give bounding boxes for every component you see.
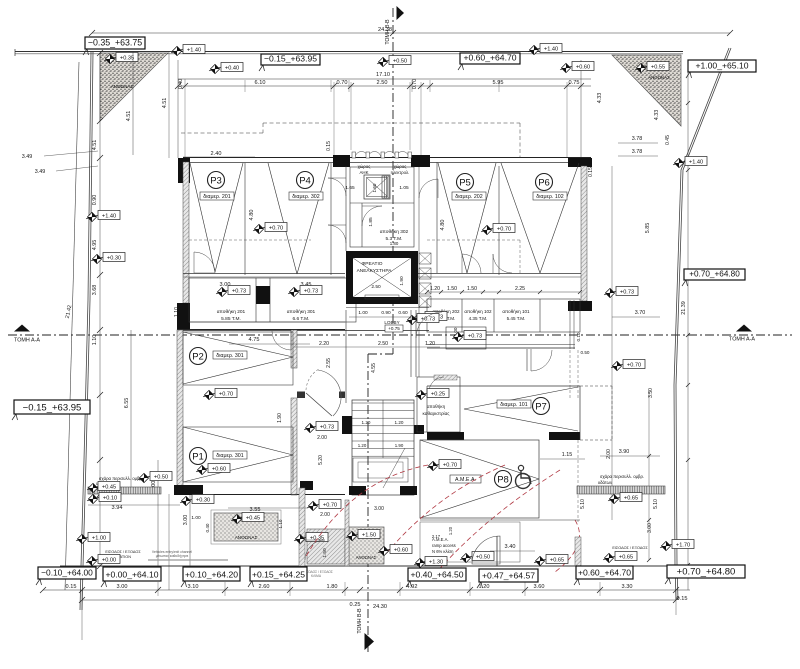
svg-text:ΕΙΣΟΔΟΣ / ΕΞΟΔΟΣ: ΕΙΣΟΔΟΣ / ΕΞΟΔΟΣ <box>105 550 141 554</box>
svg-text:2.00: 2.00 <box>320 512 330 518</box>
stair enclosure <box>352 400 414 495</box>
elevation box +0.10 +64.20 <box>181 567 240 587</box>
svg-text:0.45: 0.45 <box>665 135 671 145</box>
level marker +0.70 P5-P6 <box>481 224 515 235</box>
svg-text:P2: P2 <box>192 351 204 362</box>
svg-text:3.00: 3.00 <box>117 584 128 590</box>
elevation box -0.10 +64.00 <box>36 567 96 585</box>
svg-text:+0.70: +0.70 <box>497 226 511 232</box>
svg-text:3.50: 3.50 <box>648 388 654 398</box>
stall dividing wall P4/core <box>330 163 332 275</box>
svg-text:P7: P7 <box>535 401 547 412</box>
level marker +0.35 top-left <box>104 53 138 64</box>
door arc core west lower <box>328 225 346 243</box>
svg-text:0.60: 0.60 <box>398 310 408 316</box>
entry texts left <box>105 550 228 560</box>
planter triangle top-left (ΑΝΟΙΓΟΝΑΣ) <box>100 53 168 121</box>
level marker +0.30 left boundary <box>91 253 125 264</box>
svg-text:+0.73: +0.73 <box>421 316 435 322</box>
level marker +0.73 storage 201 <box>216 286 250 297</box>
entrance door arcs top <box>352 152 412 159</box>
svg-text:+1.40: +1.40 <box>689 159 703 165</box>
svg-text:1.20: 1.20 <box>430 286 440 292</box>
elevation box -0.15 +63.95 <box>259 54 320 72</box>
P5 stall west edge <box>436 162 438 273</box>
parking stall P3 V-mark <box>190 163 243 272</box>
svg-text:0.25: 0.25 <box>350 602 361 608</box>
svg-text:+0.60: +0.60 <box>394 547 408 553</box>
svg-text:+0.55: +0.55 <box>651 64 665 70</box>
svg-text:1.00: 1.00 <box>358 310 368 316</box>
apartment box 301 P2 <box>213 351 247 359</box>
black bar left of P1 entrance <box>174 485 203 495</box>
svg-text:2.00: 2.00 <box>606 449 612 459</box>
svg-text:2.50: 2.50 <box>378 341 388 347</box>
svg-text:+0.70_+64.80: +0.70_+64.80 <box>677 567 736 578</box>
stall dividing wall P5/P6 <box>498 166 500 275</box>
svg-text:αποθήκη 302: αποθήκη 302 <box>380 228 409 235</box>
svg-text:3.78: 3.78 <box>632 149 643 155</box>
svg-text:4.33: 4.33 <box>597 93 603 104</box>
svg-text:χώρος: χώρος <box>358 164 371 169</box>
level marker +0.65 right entry <box>603 552 637 563</box>
top dimension line 24.38 <box>89 27 733 36</box>
svg-text:+1.70: +1.70 <box>676 542 690 548</box>
svg-text:1.20: 1.20 <box>395 420 404 425</box>
svg-text:4.51: 4.51 <box>126 111 132 122</box>
left dimension line 21.42 <box>65 62 79 590</box>
svg-text:1.85: 1.85 <box>368 217 374 227</box>
svg-text:+0.00_+64.10: +0.00_+64.10 <box>105 570 158 580</box>
svg-text:1.05: 1.05 <box>399 185 409 191</box>
door arc core east <box>419 179 438 198</box>
svg-text:+0.45: +0.45 <box>246 515 260 521</box>
level marker +0.35 entrance door <box>294 533 328 544</box>
svg-text:2.40: 2.40 <box>211 151 222 157</box>
left wall upper (hatched) <box>183 162 189 303</box>
svg-text:+0.70: +0.70 <box>627 362 641 368</box>
svg-text:+0.40: +0.40 <box>225 65 239 71</box>
svg-text:+1.00: +1.00 <box>92 535 106 541</box>
lower block top wall <box>177 330 345 332</box>
svg-text:4.55: 4.55 <box>371 363 377 373</box>
svg-text:ΚΛΙΜΑ: ΚΛΙΜΑ <box>311 574 322 578</box>
level marker +0.50 top-mid <box>377 56 411 67</box>
lobby label <box>384 320 403 332</box>
svg-text:21.39: 21.39 <box>681 301 687 315</box>
svg-text:1.20: 1.20 <box>479 584 490 590</box>
svg-text:4.35 Τ.Μ.: 4.35 Τ.Μ. <box>469 316 488 321</box>
svg-text:6.10: 6.10 <box>255 80 266 86</box>
storage rooms right outline <box>427 299 580 332</box>
svg-text:5.95: 5.95 <box>493 80 504 86</box>
level marker +0.73 stairs west <box>304 422 338 433</box>
level marker +0.70 P3-P4 <box>253 223 287 234</box>
svg-text:−0.15_+63.95: −0.15_+63.95 <box>264 54 317 64</box>
svg-text:+0.75: +0.75 <box>388 326 400 331</box>
svg-text:1.50: 1.50 <box>467 286 477 292</box>
svg-text:5.85 Τ.Μ.: 5.85 Τ.Μ. <box>221 316 241 322</box>
svg-text:+0.47_+64.57: +0.47_+64.57 <box>482 571 535 581</box>
svg-text:ramp access: ramp access <box>432 543 456 548</box>
wall bar P7 left <box>427 432 464 440</box>
elevation box +0.60 +64.70 <box>458 53 520 71</box>
svg-text:−0.35_+63.75: −0.35_+63.75 <box>88 38 142 48</box>
column top-right <box>568 158 592 167</box>
svg-text:4.80: 4.80 <box>249 210 255 221</box>
svg-text:P4: P4 <box>299 175 311 186</box>
level marker +0.60 top-right <box>560 62 594 73</box>
level marker +0.45 planter left <box>231 513 264 524</box>
lobby west wall (hatched) <box>291 330 297 495</box>
parking label P6 <box>536 174 553 191</box>
red manoeuvre arcs <box>305 465 580 580</box>
entrance west wall <box>203 481 313 566</box>
svg-text:6.6 Τ.Μ.: 6.6 Τ.Μ. <box>293 316 310 322</box>
dashed projection right of P7 <box>580 386 612 440</box>
door arc corridor east <box>416 312 442 338</box>
elevator door strip <box>382 176 389 198</box>
plot boundary top line <box>15 51 683 53</box>
svg-text:ΑΝΘΩΝΑΣ: ΑΝΘΩΝΑΣ <box>235 535 258 540</box>
svg-text:+0.10: +0.10 <box>103 495 117 501</box>
svg-text:P8: P8 <box>497 474 509 485</box>
svg-text:+0.10_+64.20: +0.10_+64.20 <box>185 570 238 580</box>
svg-text:5.10: 5.10 <box>653 499 659 509</box>
svg-text:1.90: 1.90 <box>277 413 283 423</box>
plot boundary bottom <box>60 565 676 567</box>
svg-text:24.38: 24.38 <box>378 27 392 33</box>
svg-text:+0.35: +0.35 <box>120 55 134 61</box>
cleaner storage room <box>417 375 460 432</box>
svg-text:+0.70: +0.70 <box>269 225 283 231</box>
level marker +0.65 grate right <box>608 493 642 504</box>
right inner dimensions <box>540 110 671 562</box>
planter side wall hatch <box>345 500 349 566</box>
parking stall P4 V-mark <box>268 163 329 274</box>
svg-text:3.49: 3.49 <box>35 169 46 175</box>
elevation box +0.40 +64.50 <box>406 568 466 587</box>
svg-text:1.90: 1.90 <box>399 276 405 286</box>
svg-text:2.17: 2.17 <box>432 534 441 539</box>
door arc P2 corridor <box>272 331 291 350</box>
level marker +0.55 top-right <box>635 62 669 73</box>
svg-text:ΤΟΜΗ Β-Β: ΤΟΜΗ Β-Β <box>357 608 363 634</box>
svg-text:μέτωπας καθοδήγησε: μέτωπας καθοδήγησε <box>156 554 189 558</box>
svg-text:0.10: 0.10 <box>576 332 581 341</box>
svg-text:0.40: 0.40 <box>205 523 210 532</box>
level marker +1.40 right boundary <box>673 157 707 168</box>
elevation box +0.70 +64.80 bottom <box>665 565 745 584</box>
apartment box 102 <box>533 192 567 200</box>
wheelchair icon <box>516 465 532 488</box>
svg-text:1.15: 1.15 <box>562 452 573 458</box>
svg-text:+0.73: +0.73 <box>320 424 334 430</box>
column top-left <box>178 158 190 183</box>
svg-text:+1.40: +1.40 <box>544 46 558 52</box>
svg-text:3.30: 3.30 <box>622 584 633 590</box>
level marker +1.40 top-right <box>528 44 562 55</box>
AHK closet (X box) <box>364 175 390 199</box>
svg-text:ΤΟΜΗ Α-Α: ΤΟΜΗ Α-Α <box>14 338 40 344</box>
level marker +0.25 cleaner room <box>415 389 449 400</box>
svg-text:υδάτων: υδάτων <box>598 480 612 485</box>
lobby side walls <box>346 310 416 403</box>
svg-text:+0.70_+64.80: +0.70_+64.80 <box>689 270 740 279</box>
svg-text:3.70: 3.70 <box>635 310 646 316</box>
svg-text:+0.50: +0.50 <box>154 474 168 480</box>
svg-text:−0.10_+64.00: −0.10_+64.00 <box>41 568 93 578</box>
svg-text:P5: P5 <box>459 177 471 188</box>
svg-text:+1.30: +1.30 <box>429 559 443 565</box>
svg-text:2.20: 2.20 <box>319 341 329 347</box>
door arc P5 storage <box>462 254 481 273</box>
svg-text:+0.73: +0.73 <box>620 289 634 295</box>
svg-text:3.78: 3.78 <box>632 136 643 142</box>
dashed interior guides <box>189 240 520 273</box>
svg-text:+0.70: +0.70 <box>323 502 337 508</box>
svg-text:4.75: 4.75 <box>249 337 260 343</box>
svg-text:Ν 6% κλίση: Ν 6% κλίση <box>432 549 454 554</box>
svg-text:3.49: 3.49 <box>22 154 33 160</box>
column core top-left <box>333 155 350 167</box>
svg-text:2.55: 2.55 <box>326 358 332 368</box>
level marker +0.73 storage 301 <box>288 286 322 297</box>
svg-text:LOBBY: LOBBY <box>384 320 399 325</box>
level marker +0.70 P2 <box>203 389 237 400</box>
svg-text:0.90: 0.90 <box>381 310 391 316</box>
stall dividing wall P3/P4 <box>244 163 246 275</box>
level marker +0.65 entrance right <box>534 555 568 566</box>
svg-text:0.40: 0.40 <box>178 79 184 89</box>
door arc core west upper <box>328 178 346 196</box>
storage rooms left outline <box>189 278 356 322</box>
level marker +0.00 entry <box>86 555 120 566</box>
building top wall <box>183 158 591 163</box>
svg-text:4.51: 4.51 <box>162 98 168 109</box>
svg-text:+0.50: +0.50 <box>393 58 407 64</box>
svg-text:+0.73: +0.73 <box>232 288 246 294</box>
svg-text:αποθήκη 301: αποθήκη 301 <box>287 308 316 315</box>
section line B-B <box>357 6 404 652</box>
apartment box 201 <box>200 192 234 200</box>
svg-text:διαμερ. 101: διαμερ. 101 <box>500 402 527 408</box>
level marker +0.70 P8 <box>427 460 461 471</box>
svg-text:0.15: 0.15 <box>677 596 688 602</box>
top dimension band <box>126 52 603 166</box>
core outline <box>345 166 429 377</box>
svg-text:+0.25: +0.25 <box>431 391 445 397</box>
lower block left wall <box>177 330 183 494</box>
svg-text:+1.00_+65.10: +1.00_+65.10 <box>695 61 748 71</box>
svg-text:2.00: 2.00 <box>317 435 327 441</box>
dims below shaft <box>349 310 418 317</box>
svg-text:+0.40_+64.50: +0.40_+64.50 <box>410 570 463 580</box>
svg-text:P1: P1 <box>192 451 204 462</box>
svg-text:4.80: 4.80 <box>440 220 446 231</box>
svg-text:3.40: 3.40 <box>505 544 516 550</box>
right wall upper (hatched) <box>581 166 587 301</box>
svg-text:6.55: 6.55 <box>124 398 130 409</box>
svg-text:24.30: 24.30 <box>373 604 387 610</box>
amea box <box>450 475 481 483</box>
svg-text:2.50: 2.50 <box>377 80 388 86</box>
level marker +1.00 entry <box>76 533 110 544</box>
svg-text:αποθήκη 102: αποθήκη 102 <box>464 308 492 314</box>
level marker +1.50 planter mid <box>346 530 380 541</box>
level marker +1.40 top-left <box>171 45 205 56</box>
parking label P8 <box>495 471 512 488</box>
column storage divider <box>256 286 270 304</box>
svg-text:+0.65: +0.65 <box>619 554 633 560</box>
svg-text:ΑΗΚ: ΑΗΚ <box>359 170 368 175</box>
svg-text:+0.60: +0.60 <box>212 466 226 472</box>
ramp hatched <box>307 529 345 564</box>
svg-text:1.80: 1.80 <box>327 584 338 590</box>
stair columns <box>342 416 352 434</box>
svg-text:διαμερ. 301: διαμερ. 301 <box>216 453 243 459</box>
svg-text:5.10: 5.10 <box>580 499 586 509</box>
grate right <box>577 474 665 494</box>
level marker +0.45 grate <box>87 482 120 493</box>
svg-text:+0.70: +0.70 <box>443 462 457 468</box>
elevation box +0.47 +64.57 <box>477 569 538 588</box>
svg-text:4.33: 4.33 <box>654 110 660 121</box>
svg-text:ηλεκτρολ.: ηλεκτρολ. <box>391 170 410 175</box>
level marker +0.30 <box>180 495 214 506</box>
storage 302 room <box>368 217 409 246</box>
parking label P4 <box>297 172 314 189</box>
svg-text:3.68: 3.68 <box>92 285 98 296</box>
dimension line storage right <box>425 286 582 294</box>
parking label P2 <box>190 348 207 365</box>
right block lower band <box>427 300 590 400</box>
parking label P3 <box>208 172 225 189</box>
level marker +0.73 storage right <box>413 312 447 323</box>
planter left (ΑΝΘΩΝΑΣ) <box>211 510 281 544</box>
elevation box +0.60 +64.70 bottom <box>574 566 633 585</box>
svg-text:0.15: 0.15 <box>326 141 332 151</box>
svg-text:+1.40: +1.40 <box>102 213 116 219</box>
parking stall P2 <box>183 332 293 385</box>
svg-text:1.50: 1.50 <box>447 286 457 292</box>
stair treads <box>352 400 414 488</box>
plot boundary left <box>80 52 93 610</box>
svg-text:5.85: 5.85 <box>645 223 651 234</box>
lower block bottom wall <box>177 494 345 496</box>
P7/P8 right wall <box>579 386 581 440</box>
svg-text:αποθήκη 201: αποθήκη 201 <box>217 308 246 315</box>
svg-text:1.20: 1.20 <box>358 443 367 448</box>
corridor dims above stairs <box>277 341 440 423</box>
apartment box 101 P7 <box>497 400 531 408</box>
svg-text:P3: P3 <box>210 175 222 186</box>
svg-text:ΑΝΘΩΝΑΣ: ΑΝΘΩΝΑΣ <box>648 75 670 80</box>
elevation box left -0.15 +63.95 <box>12 400 90 420</box>
svg-text:ΑΝΘΩΝΑΣ: ΑΝΘΩΝΑΣ <box>111 84 134 89</box>
door arc P3 storage <box>194 252 215 273</box>
bottom dimension line <box>40 582 690 608</box>
svg-text:2.50: 2.50 <box>371 284 381 290</box>
svg-text:διαμερ. 301: διαμερ. 301 <box>216 353 243 359</box>
svg-text:0.90: 0.90 <box>92 195 98 206</box>
door arc storage 302 <box>362 206 382 226</box>
svg-text:0.75: 0.75 <box>569 80 580 86</box>
svg-text:3.94: 3.94 <box>112 505 123 511</box>
elevation box -0.35 +63.75 <box>83 37 145 55</box>
svg-text:+1.40: +1.40 <box>187 47 201 53</box>
svg-text:3.60: 3.60 <box>534 584 545 590</box>
svg-text:διαμερ. 102: διαμερ. 102 <box>536 194 563 200</box>
svg-text:ΕΙΣΟΔΟΣ / ΕΞΟΔΟΣ: ΕΙΣΟΔΟΣ / ΕΞΟΔΟΣ <box>612 546 648 550</box>
door leaf vestibule <box>306 393 332 416</box>
level marker +0.73 lobby <box>406 314 439 325</box>
svg-text:1.10: 1.10 <box>278 519 283 528</box>
svg-text:+0.60: +0.60 <box>576 64 590 70</box>
bottom total dimension 24.30 <box>79 590 679 640</box>
svg-text:καθαριστρίας: καθαριστρίας <box>423 411 451 416</box>
svg-text:1.60: 1.60 <box>372 183 377 192</box>
level marker +0.70 right side <box>611 360 645 371</box>
svg-text:+0.65: +0.65 <box>550 557 564 563</box>
level marker +1.70 boundary <box>660 540 694 551</box>
grate left <box>88 476 161 494</box>
svg-text:ΤΟΜΗ Α-Α: ΤΟΜΗ Α-Α <box>729 337 755 343</box>
column left mid <box>177 303 190 329</box>
svg-text:ΑΝΘΩΝΑΣ: ΑΝΘΩΝΑΣ <box>356 555 377 560</box>
level marker +0.73 mid-right room <box>452 331 486 342</box>
left inner dimension lines <box>124 330 190 590</box>
vestibule bottom wall segments <box>297 392 345 399</box>
planter triangle top-right (ΑΝΟΙΓΟΝΑΣ) <box>612 55 681 126</box>
svg-text:+0.60_+64.70: +0.60_+64.70 <box>578 568 631 578</box>
svg-text:1.65: 1.65 <box>345 185 355 191</box>
section line A-A <box>8 325 792 344</box>
P7/P8 block top wall <box>427 385 580 387</box>
column core top-right <box>411 155 430 167</box>
parking stall P8 (AMEA) <box>420 440 539 518</box>
level marker +0.70 entrance <box>307 500 341 511</box>
svg-text:+0.65: +0.65 <box>624 495 638 501</box>
storage band bottom wall left <box>177 322 345 330</box>
level marker +1.30 ramp <box>414 557 447 568</box>
svg-text:0.15: 0.15 <box>588 167 594 177</box>
apartment box 202 <box>452 192 486 200</box>
svg-text:1.20: 1.20 <box>362 420 371 425</box>
svg-text:3.00: 3.00 <box>183 515 189 526</box>
svg-text:+0.60_+64.70: +0.60_+64.70 <box>463 53 516 63</box>
door arc vestibule (solid) <box>318 370 341 416</box>
svg-text:1.50: 1.50 <box>322 548 328 558</box>
level marker +0.50 grate left <box>138 472 172 483</box>
elevation box right +0.70 +64.80 <box>682 269 745 286</box>
svg-text:0.70: 0.70 <box>412 79 418 89</box>
svg-text:+0.73: +0.73 <box>468 333 482 339</box>
svg-text:χώρος: χώρος <box>394 164 407 169</box>
parking label P7 <box>533 398 550 415</box>
level marker +0.73 right side <box>604 287 638 298</box>
svg-text:+0.30: +0.30 <box>107 255 121 261</box>
svg-text:+0.50: +0.50 <box>476 554 490 560</box>
svg-text:ΦΡΕΑΤΙΟ: ΦΡΕΑΤΙΟ <box>361 261 382 267</box>
plot boundary right <box>674 48 731 600</box>
svg-text:2.25: 2.25 <box>515 286 525 292</box>
svg-text:1.20: 1.20 <box>448 526 453 535</box>
svg-text:ΑΝΕΛΚΥΣΤΗΡΑ: ΑΝΕΛΚΥΣΤΗΡΑ <box>357 268 393 274</box>
svg-text:+1.50: +1.50 <box>362 532 376 538</box>
door arc entrance right <box>472 536 500 566</box>
upper stalls bottom wall <box>183 274 581 278</box>
